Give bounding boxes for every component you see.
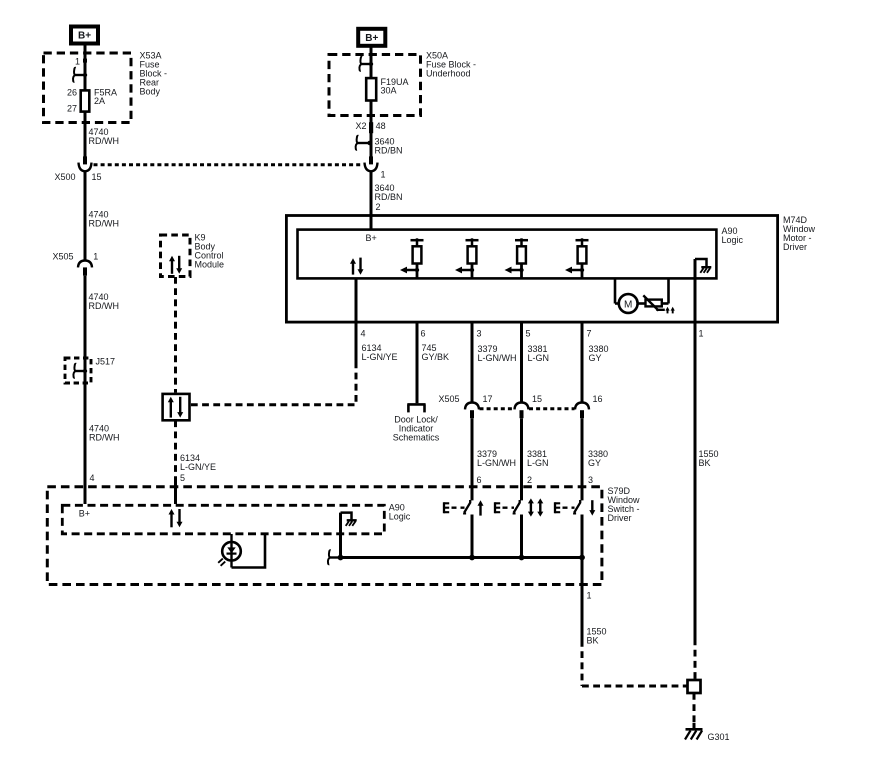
svg-text:B+: B+ [365,33,378,44]
serial data symbol (S79D) [169,509,183,527]
bus hook terminal [328,550,343,564]
svg-text:6: 6 [421,328,426,338]
wire M74D pin 1 internal [694,259,697,322]
B+ entry wire into A90 [366,216,377,244]
svg-text:2: 2 [376,202,381,212]
svg-text:Body: Body [140,87,161,97]
window motor M [615,279,638,313]
wire to M74D pin 2, circuit 3640 RD/BN [371,172,403,216]
svg-text:G301: G301 [708,732,730,742]
dashed wire splice to ground [693,693,696,729]
A90 Logic label (S79D) [389,503,411,522]
serial data symbol (K9) [169,256,182,274]
svg-text:L-GN: L-GN [527,458,549,468]
wire pin 6, circuit 745 GY/BK [417,322,449,403]
wire S79D pin 1 down, circuit 1550 BK [582,558,607,646]
splice pack J517 [65,356,115,383]
fuse F19UA 30A [366,77,408,101]
A90 logic inner box (M74D) [298,230,717,279]
wire fuse to X500, circuit 4740 RD/WH [85,112,119,157]
svg-text:L-GN/WH: L-GN/WH [477,458,516,468]
connector X505 pin 15 [515,394,543,418]
svg-text:1: 1 [699,328,704,338]
svg-text:1: 1 [93,252,98,262]
svg-text:B+: B+ [78,31,91,42]
svg-text:GY/BK: GY/BK [422,352,450,362]
wire X505-16 to S79D pin 3, circuit 3380 GY [582,418,608,500]
dotted connector link X500 [94,163,363,166]
off-page fork to Door Lock/Indicator Schematics [407,404,425,412]
Door Lock / Indicator Schematics label [393,415,440,443]
svg-text:1: 1 [381,169,386,179]
wire pin 7, circuit 3380 GY [582,322,609,403]
X53A label [140,51,168,97]
terminal squiggle in X50A [359,57,373,71]
ground wire to bus [338,513,344,561]
svg-text:6: 6 [477,475,482,485]
module K9 Body Control Module box [161,235,191,277]
A90 logic inner box (S79D) [62,505,384,534]
serial data gateway box [163,394,190,420]
dashed serial data wire K9 to gateway [174,277,177,393]
wire pin 4 to body control branch, circuit 6134 L-GN/YE [356,322,398,368]
svg-text:2: 2 [527,475,532,485]
svg-text:Logic: Logic [389,512,411,522]
M74D label [783,215,816,252]
gateway arrows [168,397,183,418]
svg-text:2A: 2A [94,96,105,106]
svg-text:3: 3 [588,475,593,485]
svg-text:BK: BK [699,458,711,468]
svg-text:Schematics: Schematics [393,433,440,443]
switch S79D Window Switch Driver box [47,487,602,585]
switch 3 (down) pin 3 [555,500,596,516]
svg-text:L-GN/YE: L-GN/YE [362,352,398,362]
svg-text:Module: Module [195,260,225,270]
wire pin 5, circuit 3381 L-GN [522,322,550,403]
svg-text:RD/BN: RD/BN [375,145,403,155]
dotted links X505 [480,407,575,410]
svg-text:4: 4 [361,328,366,338]
driver output (pin 7) [565,238,589,278]
svg-text:15: 15 [532,394,542,404]
svg-text:17: 17 [483,394,493,404]
connector X505 pin 16 [575,394,603,418]
fuse block X50A dashed box [329,55,421,116]
svg-text:B+: B+ [79,508,90,518]
LED rays [218,559,225,566]
fuse F5RA 2A [67,87,117,113]
switch 2 (up/down) pin 2 [495,498,544,516]
S79D label [608,486,641,523]
ground bus wire [341,556,582,559]
pin 1 of X53A [75,56,87,66]
terminal squiggle in J517 [73,358,87,383]
svg-text:30A: 30A [381,85,397,95]
B+ label at pin 4 entry [79,508,90,518]
motor position sensor (PTC) [638,279,669,311]
wire X505 to J517, circuit 4740 RD/WH [85,276,119,358]
connector X505 pin 1 (left) [52,252,98,276]
module M74D Window Motor Driver box [286,216,777,323]
wire J517 to S79D pin 4, circuit 4740 RD/WH [85,383,120,504]
svg-text:Underhood: Underhood [426,69,471,79]
dashed wire M74D pin1 to splice [694,639,697,680]
M74D pin numbers [361,328,704,338]
svg-text:Driver: Driver [783,242,807,252]
svg-text:16: 16 [593,394,603,404]
svg-text:RD/WH: RD/WH [89,219,120,229]
svg-text:15: 15 [92,172,102,182]
svg-text:GY: GY [588,458,601,468]
indicator LED [222,534,241,568]
switch 3 wire to bus / pin 1 [579,515,585,561]
connector X2 pin 48 [355,121,385,133]
svg-text:RD/WH: RD/WH [89,136,120,146]
svg-text:X2: X2 [355,121,366,131]
svg-text:1: 1 [75,56,80,66]
svg-text:1: 1 [587,590,592,600]
svg-text:4: 4 [90,473,95,483]
connector X500 pin 15 [54,156,101,182]
X505 label (middle row) [438,394,459,404]
circuit 3640 RD/BN label (upper) [375,136,403,155]
svg-text:L-GN/WH: L-GN/WH [478,353,517,363]
svg-text:5: 5 [180,473,185,483]
splice block [688,680,701,693]
svg-text:3: 3 [477,328,482,338]
wire X505-15 to S79D pin 2, circuit 3381 L-GN [522,418,549,500]
svg-text:26: 26 [67,88,77,98]
svg-text:L-GN/YE: L-GN/YE [180,462,216,472]
svg-text:RD/WH: RD/WH [89,433,120,443]
switch 1 (up) pin 6 [444,500,484,516]
K9 label [195,233,225,270]
svg-text:GY: GY [589,353,602,363]
terminal squiggle below X2 [356,136,372,150]
driver output (pin 6) [400,238,424,278]
sensor arrows [665,307,674,314]
wire pin 3, circuit 3379 L-GN/WH [472,322,517,403]
driver output (pin 5) [505,238,529,278]
svg-text:M: M [624,299,632,310]
svg-text:X500: X500 [54,172,75,182]
svg-text:RD/BN: RD/BN [375,192,403,202]
svg-text:5: 5 [526,328,531,338]
fuse block X53A dashed box [44,53,132,123]
wire X500 to X505, circuit 4740 RD/WH [85,172,119,261]
svg-text:J517: J517 [96,356,116,366]
svg-text:BK: BK [587,636,599,646]
wire fuse F19UA to X2 pin 48 [370,101,373,157]
terminal squiggle in X53A [73,68,87,82]
svg-text:RD/WH: RD/WH [89,301,120,311]
dashed wire gateway to S79D pin 5, circuit 6134 L-GN/YE [176,420,217,504]
svg-text:27: 27 [67,104,77,114]
ground G301 [685,729,730,742]
inline connector pin 1 at dotted link [365,156,386,179]
driver output (pin 3) [455,238,479,278]
battery feed B+ (left) [71,27,98,44]
wire pin 1, circuit 1550 BK [695,322,719,639]
A90 Logic label (M74D) [722,226,744,245]
wire B+ to X53A fuse block [84,45,87,90]
svg-text:L-GN: L-GN [528,353,550,363]
dashed wire to splice [582,640,687,686]
wire M74D pin 4 [355,279,358,323]
wire B+ to X50A fuse block [370,47,373,78]
svg-text:Logic: Logic [722,235,744,245]
svg-text:X505: X505 [52,252,73,262]
internal ground (S79D A90) [341,513,357,526]
svg-text:Driver: Driver [608,513,632,523]
svg-text:48: 48 [376,121,386,131]
serial data symbol (up/down arrows) M74D [350,258,364,275]
connector X505 pin 17 [465,394,493,418]
svg-text:B+: B+ [366,233,377,243]
svg-text:X505: X505 [438,394,459,404]
svg-text:7: 7 [587,328,592,338]
internal ground (M74D A90) [695,259,711,273]
X50A label [426,51,476,79]
dashed branch to K9 serial data [191,368,356,405]
battery feed B+ (center) [358,29,385,46]
LED return wire [232,534,266,568]
switch 1 wire to bus [469,515,475,561]
switch 2 wire to bus [519,515,525,561]
wire X505-17 to S79D pin 6, circuit 3379 L-GN/WH [472,418,516,500]
